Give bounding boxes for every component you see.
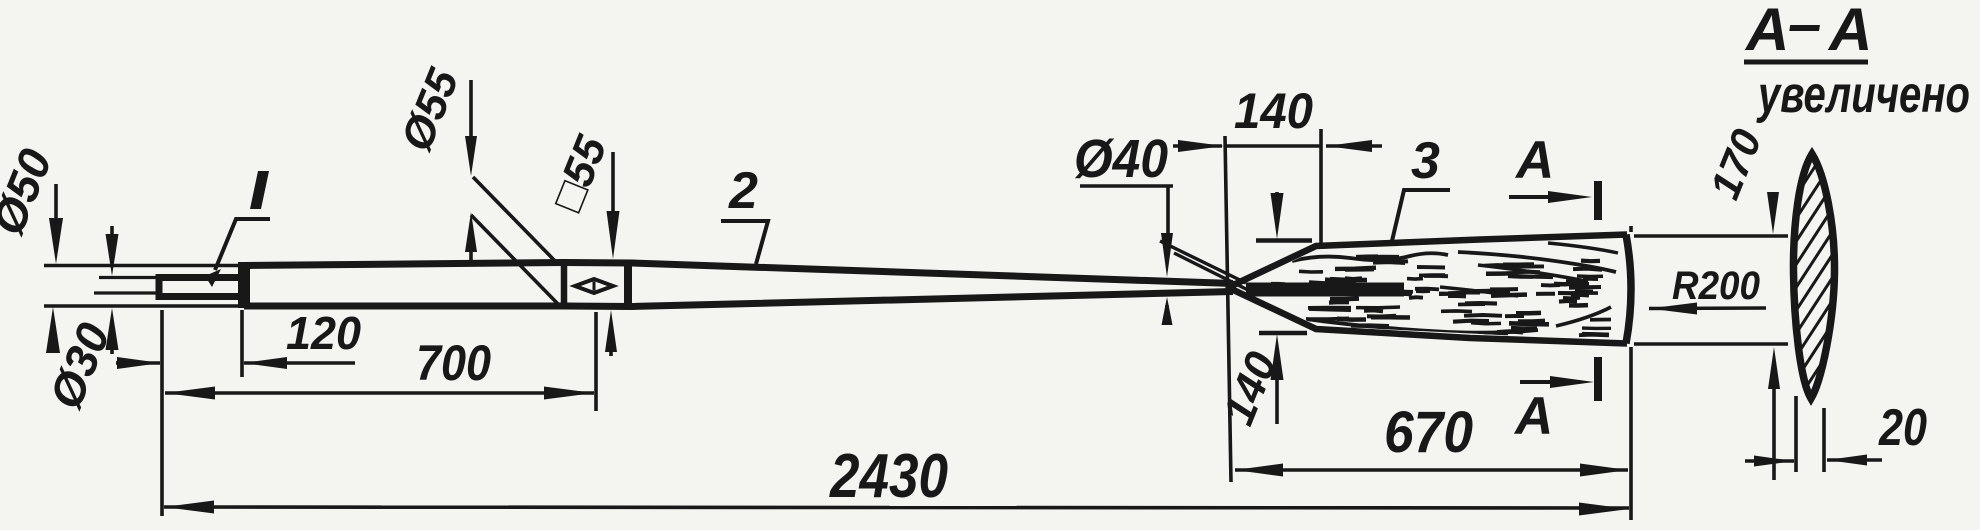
- svg-text:A: A: [1513, 387, 1553, 446]
- svg-text:670: 670: [1384, 400, 1473, 465]
- svg-text:120: 120: [286, 307, 361, 359]
- svg-text:увеличено: увеличено: [1756, 66, 1970, 124]
- svg-text:Ø40: Ø40: [1074, 129, 1168, 189]
- svg-text:2: 2: [728, 162, 758, 220]
- svg-text:A: A: [1744, 0, 1789, 63]
- svg-text:700: 700: [416, 335, 491, 391]
- svg-text:2430: 2430: [829, 442, 948, 511]
- svg-text:R200: R200: [1672, 264, 1760, 308]
- svg-text:A: A: [1827, 0, 1872, 63]
- svg-text:3: 3: [1411, 132, 1440, 190]
- svg-text:A: A: [1514, 131, 1554, 190]
- svg-text:140: 140: [1234, 83, 1313, 139]
- svg-text:–: –: [1788, 0, 1821, 57]
- svg-text:20: 20: [1878, 399, 1927, 457]
